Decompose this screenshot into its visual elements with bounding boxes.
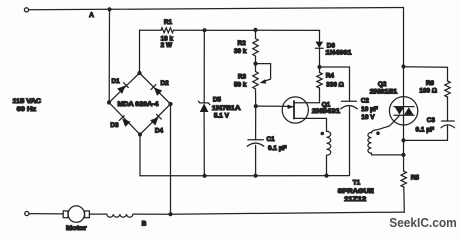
svg-text:B: B xyxy=(142,220,147,227)
wire rail down to zener D5 xyxy=(203,30,205,103)
diode D2 xyxy=(151,80,169,96)
svg-text:R5: R5 xyxy=(411,175,420,182)
capacitor C3 0.1uF xyxy=(416,117,455,133)
svg-text:Motor: Motor xyxy=(66,225,87,232)
svg-text:T1: T1 xyxy=(353,180,361,187)
node A xyxy=(89,7,111,19)
resistor R5 xyxy=(401,155,419,187)
junction bus / C1 xyxy=(254,174,258,178)
svg-text:C3: C3 xyxy=(427,117,436,124)
svg-text:10 μF: 10 μF xyxy=(361,106,378,113)
svg-text:50 k: 50 k xyxy=(234,81,247,88)
label T1 SPRAGUE 11Z12 xyxy=(338,180,375,203)
svg-text:2 W: 2 W xyxy=(161,42,173,49)
svg-text:39 k: 39 k xyxy=(234,48,247,55)
label 115 VAC 60 Hz xyxy=(13,98,42,113)
motor M xyxy=(63,206,89,232)
wire top-right corner down to Q2 branch junction xyxy=(403,8,405,67)
bridge rectifier MDA 920A-4 frame xyxy=(109,73,171,135)
svg-text:D2: D2 xyxy=(161,80,170,87)
junction R3 / C1 / Q1 gate xyxy=(254,104,258,108)
wire Q2 gate to T1 secondary top xyxy=(372,116,400,133)
svg-text:100 Ω: 100 Ω xyxy=(419,87,437,94)
potentiometer R3 50k xyxy=(234,64,271,89)
wire R5 down to bottom bus corner xyxy=(403,187,406,212)
wire bridge top vertex up to R1 rail xyxy=(139,30,141,73)
wire R2 bottom to R3 top junction xyxy=(255,56,257,72)
junction bus / D5 xyxy=(203,174,207,178)
svg-text:R6: R6 xyxy=(426,80,435,87)
svg-text:SeekIC.com: SeekIC.com xyxy=(389,216,457,230)
svg-text:D5: D5 xyxy=(213,96,222,103)
wire D6 to junction xyxy=(319,48,321,67)
svg-text:115 VAC: 115 VAC xyxy=(13,98,42,105)
wire junction right to R6 xyxy=(404,67,448,81)
node B xyxy=(142,220,147,227)
wire R3 bottom to gate junction xyxy=(255,89,257,106)
svg-text:A: A xyxy=(89,12,94,19)
svg-text:11Z12: 11Z12 xyxy=(344,196,367,203)
terminal top-left input xyxy=(24,8,28,12)
inductor choke xyxy=(107,214,133,217)
svg-text:SPRAGUE: SPRAGUE xyxy=(338,188,375,195)
wire node A down to bridge left vertex xyxy=(108,9,110,102)
resistor R6 100ohm xyxy=(419,80,450,97)
zener diode D5 1N751A 5.1V xyxy=(198,96,241,119)
svg-text:C2: C2 xyxy=(361,98,370,105)
junction bridge bottom vertex xyxy=(138,132,142,136)
diode D1 xyxy=(112,78,129,94)
transistor Q1 2N5431 xyxy=(282,97,340,123)
capacitor C2 10uF 10V xyxy=(341,98,378,121)
junction Q2 / C3 return xyxy=(401,138,405,142)
wire bridge bottom vertex down to DC minus bus xyxy=(139,135,141,176)
junction R2/R3 wiper tap xyxy=(253,62,257,66)
svg-text:R4: R4 xyxy=(326,72,335,79)
triac Q2 2N6151 xyxy=(370,81,418,125)
wire C1 down to DC minus bus xyxy=(255,145,257,175)
terminal bottom-left input xyxy=(25,211,29,215)
wire junction right to C2 top xyxy=(320,67,350,101)
svg-text:D3: D3 xyxy=(110,122,119,129)
wire DC plus rail left of R1 xyxy=(140,29,162,31)
svg-text:R1: R1 xyxy=(164,19,173,26)
resistor R2 39k xyxy=(234,39,258,57)
svg-text:Q2: Q2 xyxy=(378,81,387,88)
svg-text:0.1 μF: 0.1 μF xyxy=(268,145,287,152)
junction bridge right vertex xyxy=(168,102,172,106)
junction bridge top vertex xyxy=(137,71,141,75)
wire DC plus rail right of R1 to D6 branch xyxy=(174,29,320,31)
wire zener D5 down to DC minus bus xyxy=(203,112,205,176)
svg-text:10 V: 10 V xyxy=(361,114,375,121)
diode D6 1N4001 xyxy=(315,42,352,57)
svg-text:2N6151: 2N6151 xyxy=(370,88,398,95)
diode D4 xyxy=(150,114,163,134)
junction bus / T1 primary xyxy=(324,174,328,178)
wire junction to Q1 gate xyxy=(256,105,283,107)
wire R6 down to C3 xyxy=(447,97,449,121)
junction bridge left vertex xyxy=(107,100,111,104)
wire Q2 main vertical xyxy=(403,67,405,155)
wire top AC line to node A and right xyxy=(29,8,404,10)
svg-text:R3: R3 xyxy=(238,74,247,81)
svg-text:MDA 920A-4: MDA 920A-4 xyxy=(118,101,159,108)
diode D3 xyxy=(110,116,130,129)
junction rail / D5 branch xyxy=(202,28,206,32)
junction rail / R2 branch xyxy=(253,28,257,32)
capacitor C1 0.1uF xyxy=(247,136,286,152)
svg-text:2N5431: 2N5431 xyxy=(312,108,341,115)
svg-text:C1: C1 xyxy=(267,136,276,143)
wire bridge right vertex down to node B bus (crossover) xyxy=(170,104,172,214)
transformer T1 secondary winding xyxy=(368,131,404,155)
svg-text:1N4001: 1N4001 xyxy=(326,49,353,56)
junction Q2 / T1 secondary return xyxy=(401,153,405,157)
svg-text:D1: D1 xyxy=(112,78,121,85)
wire C2 down to DC minus bus right end xyxy=(349,107,351,176)
svg-text:1N751A: 1N751A xyxy=(212,105,241,112)
svg-text:330 Ω: 330 Ω xyxy=(326,81,344,88)
junction bottom bus / bridge right vertex xyxy=(168,212,172,216)
wire C3 down and left to Q2 main terminal xyxy=(404,126,448,140)
wire choke to node B junction and right end xyxy=(133,212,404,214)
junction Q2 branch / R6 branch xyxy=(401,64,405,68)
svg-text:D4: D4 xyxy=(155,128,164,135)
wire junction down to C1 xyxy=(255,106,257,140)
svg-text:0.1 μF: 0.1 μF xyxy=(416,127,435,134)
resistor R4 330ohm xyxy=(317,72,344,88)
transformer T1 primary winding xyxy=(321,118,331,175)
wire terminal to motor xyxy=(29,213,63,215)
wire rail to R2 top xyxy=(255,30,257,39)
resistor R1 18k 2W xyxy=(161,19,174,49)
junction D6 / R4 / C2 xyxy=(317,65,321,69)
svg-text:R2: R2 xyxy=(238,40,247,47)
wire rail corner down to D6 xyxy=(319,30,321,41)
svg-text:5.1 V: 5.1 V xyxy=(214,113,230,120)
wire R4 bottom corner to Q1 base1 lead xyxy=(319,67,321,73)
wire motor to choke xyxy=(89,213,106,215)
wire DC minus bus xyxy=(140,175,350,177)
svg-text:60 Hz: 60 Hz xyxy=(17,106,37,113)
